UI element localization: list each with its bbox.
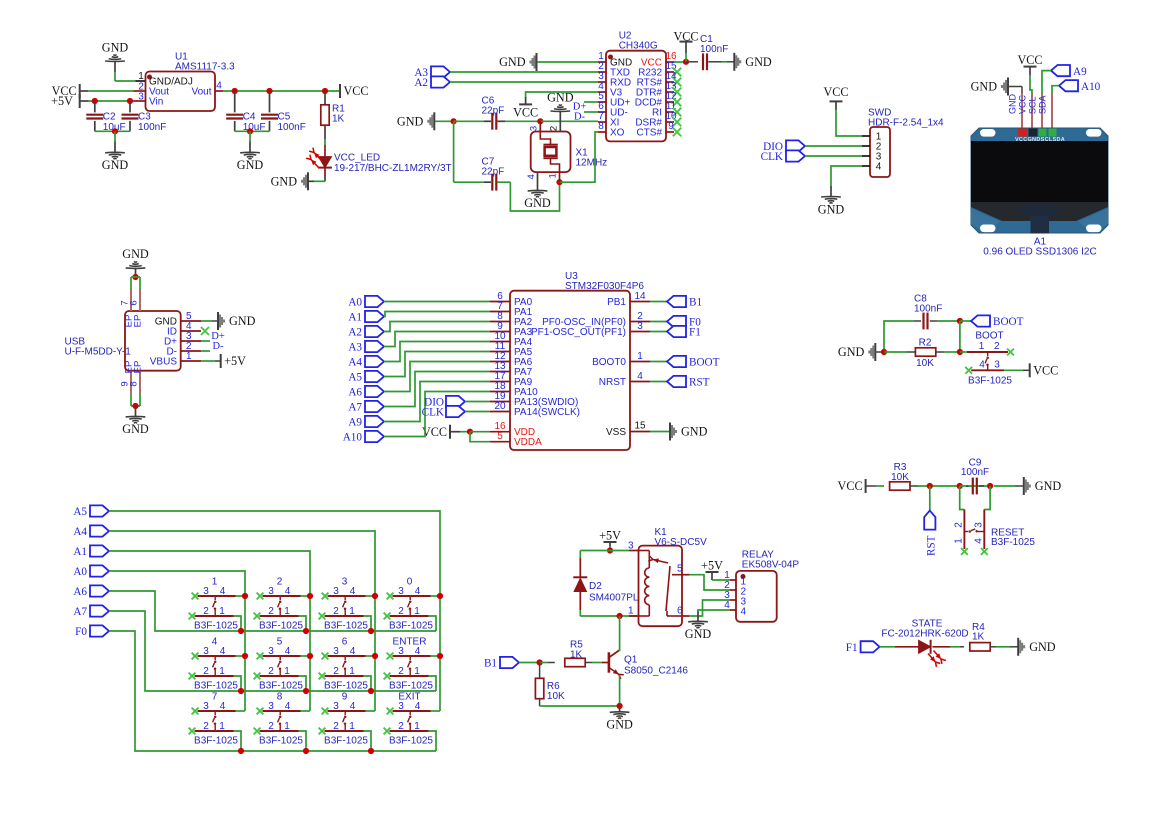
svg-text:3: 3 bbox=[268, 586, 274, 597]
svg-text:3: 3 bbox=[268, 701, 274, 712]
svg-text:AMS1117-3.3: AMS1117-3.3 bbox=[175, 62, 235, 73]
svg-text:2: 2 bbox=[203, 606, 209, 617]
svg-text:U-F-M5DD-Y-1: U-F-M5DD-Y-1 bbox=[65, 347, 132, 358]
svg-text:A4: A4 bbox=[73, 526, 87, 538]
svg-text:GND: GND bbox=[547, 90, 574, 104]
svg-text:B3F-1025: B3F-1025 bbox=[259, 736, 303, 747]
svg-text:1: 1 bbox=[548, 173, 559, 178]
svg-text:1: 1 bbox=[284, 666, 290, 677]
svg-text:2: 2 bbox=[268, 721, 274, 732]
svg-text:C3: C3 bbox=[138, 112, 151, 123]
svg-text:1: 1 bbox=[349, 721, 355, 732]
svg-text:2: 2 bbox=[994, 341, 1000, 352]
svg-text:1: 1 bbox=[637, 351, 643, 362]
svg-text:100nF: 100nF bbox=[700, 44, 728, 55]
svg-text:1: 1 bbox=[284, 721, 290, 732]
svg-text:GND: GND bbox=[606, 718, 633, 732]
svg-text:F1: F1 bbox=[689, 327, 701, 339]
svg-text:6: 6 bbox=[342, 637, 348, 648]
svg-text:1: 1 bbox=[414, 606, 420, 617]
svg-text:1: 1 bbox=[414, 666, 420, 677]
svg-text:F0: F0 bbox=[75, 626, 87, 638]
svg-text:2: 2 bbox=[268, 666, 274, 677]
svg-text:B3F-1025: B3F-1025 bbox=[389, 621, 433, 632]
svg-text:B3F-1025: B3F-1025 bbox=[324, 736, 368, 747]
svg-text:GND: GND bbox=[971, 80, 998, 94]
svg-text:BOOT: BOOT bbox=[689, 357, 720, 369]
svg-text:EK508V-04P: EK508V-04P bbox=[742, 560, 800, 571]
svg-text:EP: EP bbox=[133, 315, 144, 328]
svg-text:A5: A5 bbox=[348, 372, 362, 384]
svg-text:BOOT: BOOT bbox=[993, 316, 1024, 328]
svg-text:3: 3 bbox=[637, 321, 643, 332]
svg-text:CH340G: CH340G bbox=[619, 40, 658, 51]
svg-text:3: 3 bbox=[398, 701, 404, 712]
svg-text:PF1-OSC_OUT(PF1): PF1-OSC_OUT(PF1) bbox=[531, 327, 626, 338]
svg-text:10K: 10K bbox=[891, 472, 909, 483]
svg-text:B3F-1025: B3F-1025 bbox=[259, 621, 303, 632]
svg-text:GND: GND bbox=[271, 175, 298, 189]
svg-text:V6-S-DC5V: V6-S-DC5V bbox=[655, 537, 708, 548]
svg-text:B3F-1025: B3F-1025 bbox=[991, 537, 1035, 548]
svg-text:GND: GND bbox=[681, 425, 708, 439]
svg-text:3: 3 bbox=[333, 586, 339, 597]
svg-text:ENTER: ENTER bbox=[393, 637, 427, 648]
svg-text:1: 1 bbox=[186, 351, 192, 362]
svg-text:B3F-1025: B3F-1025 bbox=[194, 621, 238, 632]
svg-text:3: 3 bbox=[342, 577, 348, 588]
svg-text:SDA: SDA bbox=[1037, 95, 1047, 114]
svg-text:HDR-F-2.54_1x4: HDR-F-2.54_1x4 bbox=[868, 118, 944, 129]
svg-text:VCC_LED: VCC_LED bbox=[334, 153, 380, 164]
svg-text:0.96 OLED SSD1306 I2C: 0.96 OLED SSD1306 I2C bbox=[983, 247, 1096, 258]
svg-text:3: 3 bbox=[333, 701, 339, 712]
svg-text:22pF: 22pF bbox=[482, 106, 505, 117]
svg-text:GND: GND bbox=[229, 314, 256, 328]
svg-text:14: 14 bbox=[634, 291, 646, 302]
svg-text:Q1: Q1 bbox=[624, 655, 638, 666]
svg-text:2: 2 bbox=[398, 666, 404, 677]
svg-text:FC-2012HRK-620D: FC-2012HRK-620D bbox=[881, 629, 968, 640]
svg-text:3: 3 bbox=[333, 646, 339, 657]
svg-text:A7: A7 bbox=[73, 606, 87, 618]
svg-text:GND: GND bbox=[745, 55, 772, 69]
svg-text:2: 2 bbox=[268, 606, 274, 617]
svg-text:EP: EP bbox=[133, 361, 144, 374]
svg-text:3: 3 bbox=[398, 646, 404, 657]
svg-text:1K: 1K bbox=[570, 650, 583, 661]
svg-text:4: 4 bbox=[350, 586, 356, 597]
svg-text:4: 4 bbox=[741, 607, 747, 618]
svg-text:7: 7 bbox=[212, 692, 218, 703]
svg-text:6: 6 bbox=[677, 606, 683, 617]
svg-text:A6: A6 bbox=[348, 387, 362, 399]
svg-text:PA14(SWCLK): PA14(SWCLK) bbox=[514, 407, 580, 418]
svg-text:GND: GND bbox=[524, 196, 551, 210]
svg-text:3: 3 bbox=[203, 646, 209, 657]
svg-text:A3: A3 bbox=[348, 342, 362, 354]
svg-text:B3F-1025: B3F-1025 bbox=[259, 681, 303, 692]
svg-text:BOOT0: BOOT0 bbox=[592, 357, 626, 368]
svg-text:1K: 1K bbox=[972, 632, 985, 643]
svg-text:B3F-1025: B3F-1025 bbox=[389, 736, 433, 747]
svg-text:F1: F1 bbox=[846, 642, 858, 654]
svg-text:10K: 10K bbox=[547, 691, 565, 702]
svg-text:A2: A2 bbox=[348, 327, 362, 339]
svg-text:Vin: Vin bbox=[149, 97, 163, 108]
svg-text:CLK: CLK bbox=[422, 407, 444, 419]
svg-text:1: 1 bbox=[219, 606, 225, 617]
svg-text:4: 4 bbox=[220, 646, 226, 657]
svg-text:GND: GND bbox=[237, 158, 264, 172]
svg-text:8: 8 bbox=[598, 121, 604, 132]
svg-text:4: 4 bbox=[220, 701, 226, 712]
svg-text:5: 5 bbox=[677, 564, 683, 575]
svg-text:PB1: PB1 bbox=[607, 297, 626, 308]
svg-text:VSS: VSS bbox=[606, 427, 626, 438]
svg-text:4: 4 bbox=[526, 174, 537, 179]
svg-text:4: 4 bbox=[637, 371, 643, 382]
svg-text:D2: D2 bbox=[589, 581, 602, 592]
svg-text:2: 2 bbox=[333, 606, 339, 617]
svg-text:R2: R2 bbox=[919, 338, 932, 349]
svg-text:4: 4 bbox=[415, 701, 421, 712]
svg-text:4: 4 bbox=[350, 646, 356, 657]
svg-text:RST: RST bbox=[689, 377, 710, 389]
svg-text:3: 3 bbox=[973, 522, 984, 528]
svg-text:1: 1 bbox=[349, 606, 355, 617]
svg-text:VCC: VCC bbox=[513, 106, 538, 120]
svg-text:3: 3 bbox=[398, 586, 404, 597]
svg-text:2: 2 bbox=[333, 721, 339, 732]
svg-text:1: 1 bbox=[219, 666, 225, 677]
svg-text:4: 4 bbox=[415, 586, 421, 597]
svg-text:A9: A9 bbox=[1073, 66, 1087, 78]
svg-text:4: 4 bbox=[285, 586, 291, 597]
svg-text:VCCGNDSCLSDA: VCCGNDSCLSDA bbox=[1015, 137, 1065, 143]
svg-text:+5V: +5V bbox=[224, 354, 246, 368]
svg-text:VCC: VCC bbox=[1017, 53, 1042, 67]
svg-text:B3F-1025: B3F-1025 bbox=[194, 736, 238, 747]
svg-text:20: 20 bbox=[494, 401, 506, 412]
svg-text:4: 4 bbox=[350, 701, 356, 712]
svg-text:4: 4 bbox=[285, 646, 291, 657]
svg-text:B3F-1025: B3F-1025 bbox=[968, 376, 1012, 387]
svg-text:100nF: 100nF bbox=[961, 467, 989, 478]
svg-text:2: 2 bbox=[203, 666, 209, 677]
svg-text:2: 2 bbox=[548, 126, 559, 131]
svg-text:A0: A0 bbox=[348, 297, 362, 309]
svg-text:Vout: Vout bbox=[191, 87, 211, 98]
svg-text:1: 1 bbox=[212, 577, 218, 588]
svg-text:+5V: +5V bbox=[599, 529, 621, 543]
svg-text:3: 3 bbox=[203, 701, 209, 712]
svg-text:2: 2 bbox=[203, 721, 209, 732]
svg-text:A1: A1 bbox=[348, 312, 362, 324]
svg-text:2: 2 bbox=[398, 606, 404, 617]
svg-text:1: 1 bbox=[349, 666, 355, 677]
svg-text:VDDA: VDDA bbox=[514, 437, 542, 448]
svg-text:GND: GND bbox=[102, 158, 129, 172]
svg-text:A6: A6 bbox=[73, 586, 87, 598]
svg-text:4: 4 bbox=[285, 701, 291, 712]
svg-text:SCL: SCL bbox=[1027, 96, 1037, 114]
svg-text:GND: GND bbox=[397, 115, 424, 129]
svg-text:A1: A1 bbox=[73, 546, 87, 558]
svg-text:GND: GND bbox=[838, 345, 865, 359]
svg-text:NRST: NRST bbox=[599, 377, 626, 388]
svg-text:C2: C2 bbox=[103, 112, 116, 123]
svg-text:4: 4 bbox=[212, 637, 218, 648]
svg-text:C5: C5 bbox=[278, 112, 291, 123]
svg-text:B3F-1025: B3F-1025 bbox=[324, 681, 368, 692]
svg-text:GND: GND bbox=[1035, 479, 1062, 493]
svg-text:B3F-1025: B3F-1025 bbox=[324, 621, 368, 632]
svg-text:9: 9 bbox=[668, 121, 674, 132]
svg-text:8: 8 bbox=[277, 692, 283, 703]
svg-text:0: 0 bbox=[407, 577, 413, 588]
svg-text:3: 3 bbox=[138, 92, 144, 103]
svg-text:2: 2 bbox=[953, 522, 964, 528]
svg-text:A7: A7 bbox=[348, 402, 362, 414]
svg-text:VCC: VCC bbox=[1017, 94, 1027, 114]
svg-text:B1: B1 bbox=[484, 658, 497, 670]
svg-text:VCC: VCC bbox=[823, 85, 848, 99]
svg-text:RST: RST bbox=[926, 535, 938, 556]
svg-text:VCC: VCC bbox=[1033, 364, 1058, 378]
svg-text:GND: GND bbox=[122, 247, 149, 261]
svg-text:GND: GND bbox=[685, 627, 712, 641]
svg-text:A4: A4 bbox=[348, 357, 362, 369]
svg-text:+5V: +5V bbox=[51, 94, 73, 108]
svg-text:4: 4 bbox=[979, 359, 985, 370]
svg-text:5: 5 bbox=[277, 637, 283, 648]
svg-text:100nF: 100nF bbox=[278, 122, 306, 133]
svg-text:B3F-1025: B3F-1025 bbox=[389, 681, 433, 692]
svg-text:100nF: 100nF bbox=[138, 122, 166, 133]
svg-text:EXIT: EXIT bbox=[398, 692, 420, 703]
svg-text:1: 1 bbox=[414, 721, 420, 732]
svg-text:1: 1 bbox=[979, 341, 985, 352]
svg-text:5: 5 bbox=[497, 431, 503, 442]
svg-text:A10: A10 bbox=[343, 432, 363, 444]
svg-text:A5: A5 bbox=[73, 506, 87, 518]
svg-text:A2: A2 bbox=[414, 77, 428, 89]
svg-text:4: 4 bbox=[415, 646, 421, 657]
svg-text:3: 3 bbox=[994, 359, 1000, 370]
svg-text:1: 1 bbox=[284, 606, 290, 617]
svg-text:1K: 1K bbox=[332, 114, 345, 125]
svg-text:8: 8 bbox=[129, 381, 140, 386]
svg-text:VCC: VCC bbox=[344, 84, 369, 98]
svg-text:1: 1 bbox=[138, 71, 144, 82]
svg-text:2: 2 bbox=[333, 666, 339, 677]
svg-text:22pF: 22pF bbox=[482, 167, 505, 178]
svg-text:B1: B1 bbox=[689, 297, 702, 309]
svg-text:9: 9 bbox=[342, 692, 348, 703]
svg-text:VCC: VCC bbox=[673, 30, 698, 44]
svg-text:GND: GND bbox=[1007, 93, 1017, 114]
svg-text:GND: GND bbox=[499, 55, 526, 69]
svg-text:4: 4 bbox=[220, 586, 226, 597]
svg-text:4: 4 bbox=[216, 81, 222, 92]
svg-text:C4: C4 bbox=[243, 112, 256, 123]
svg-text:3: 3 bbox=[628, 541, 634, 552]
svg-text:BOOT: BOOT bbox=[975, 331, 1003, 342]
svg-text:+5V: +5V bbox=[701, 559, 723, 573]
svg-text:12MHz: 12MHz bbox=[576, 158, 608, 169]
svg-text:4: 4 bbox=[876, 162, 882, 173]
svg-text:GND: GND bbox=[102, 40, 129, 54]
svg-text:CLK: CLK bbox=[761, 151, 783, 163]
svg-text:3: 3 bbox=[203, 586, 209, 597]
svg-text:A10: A10 bbox=[1081, 81, 1101, 93]
svg-text:3: 3 bbox=[528, 126, 539, 131]
svg-text:GND: GND bbox=[122, 422, 149, 436]
svg-text:2: 2 bbox=[398, 721, 404, 732]
svg-text:1: 1 bbox=[953, 538, 964, 544]
svg-text:4: 4 bbox=[973, 538, 984, 544]
svg-text:6: 6 bbox=[129, 300, 140, 305]
svg-text:GND: GND bbox=[818, 202, 845, 216]
svg-text:STM32F030F4P6: STM32F030F4P6 bbox=[565, 281, 644, 292]
svg-text:1: 1 bbox=[628, 606, 634, 617]
svg-text:1: 1 bbox=[219, 721, 225, 732]
svg-text:VBUS: VBUS bbox=[150, 357, 178, 368]
svg-text:D-: D- bbox=[212, 341, 224, 352]
svg-text:B3F-1025: B3F-1025 bbox=[194, 681, 238, 692]
svg-text:3: 3 bbox=[268, 646, 274, 657]
svg-text:GND: GND bbox=[1029, 640, 1056, 654]
svg-text:A0: A0 bbox=[73, 566, 87, 578]
svg-text:XO: XO bbox=[610, 128, 625, 139]
svg-text:10K: 10K bbox=[916, 358, 934, 369]
svg-text:VCC: VCC bbox=[838, 479, 863, 493]
svg-text:S8050_C2146: S8050_C2146 bbox=[624, 666, 688, 677]
svg-text:CTS#: CTS# bbox=[636, 128, 662, 139]
svg-text:2: 2 bbox=[277, 577, 283, 588]
svg-text:SM4007PL: SM4007PL bbox=[589, 593, 639, 604]
svg-text:15: 15 bbox=[634, 421, 646, 432]
svg-text:19-217/BHC-ZL1M2RY/3T: 19-217/BHC-ZL1M2RY/3T bbox=[334, 163, 452, 174]
svg-text:A9: A9 bbox=[348, 417, 362, 429]
